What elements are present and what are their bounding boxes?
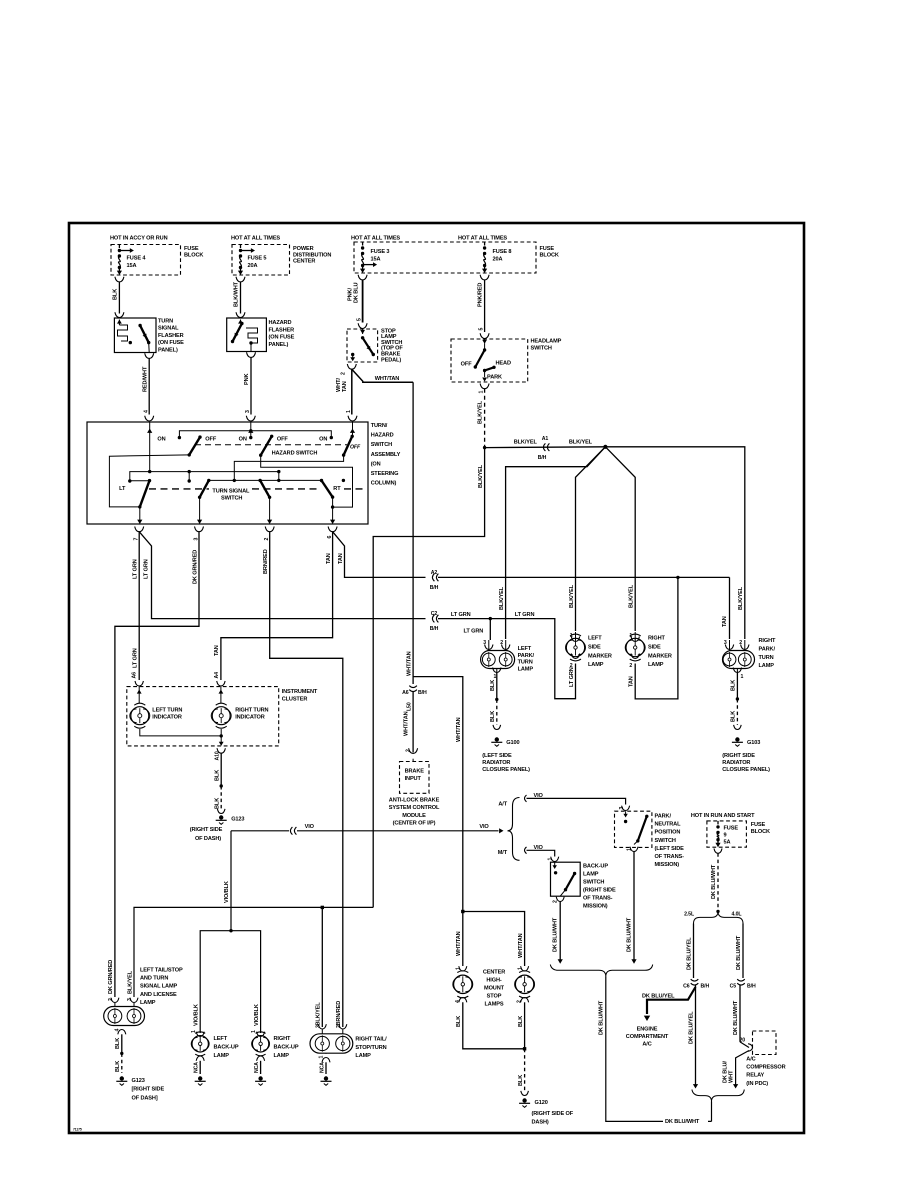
wire DK BLU/WHT C5 to A/C compressor relay pin 20 (733, 985, 753, 1051)
svg-text:C5: C5 (730, 983, 737, 989)
wire BRN/RED pin2 to right tail lamp (263, 532, 343, 1027)
svg-text:STOP/TURN: STOP/TURN (355, 1045, 386, 1051)
svg-text:LT GRN: LT GRN (133, 648, 139, 668)
svg-text:(ON: (ON (371, 461, 381, 467)
svg-text:BLK: BLK (215, 770, 221, 781)
svg-text:INDICATOR: INDICATOR (235, 715, 265, 721)
svg-text:OFF: OFF (205, 436, 217, 442)
wire BLK right park/turn to ground G103 (731, 673, 742, 730)
svg-text:PEDAL): PEDAL) (381, 357, 401, 363)
svg-text:POSITION: POSITION (655, 830, 681, 836)
svg-text:2: 2 (739, 640, 742, 646)
svg-text:B/H: B/H (701, 983, 710, 989)
svg-text:2: 2 (406, 749, 412, 752)
svg-text:1: 1 (627, 848, 633, 851)
wire BLK/YEL headlamp PARK output (dashed) (478, 384, 490, 448)
svg-text:BLK/YEL: BLK/YEL (569, 440, 593, 446)
fuse block F4 (HOT IN ACCY OR RUN) (110, 236, 203, 282)
svg-text:3: 3 (315, 1025, 321, 1028)
wire LT GRN pin7 straight to instrument cluster A6 (132, 532, 140, 680)
svg-text:A10: A10 (215, 751, 221, 760)
svg-text:RIGHT: RIGHT (274, 1036, 292, 1042)
wire VIO M/T branch to back-up lamp switch (525, 845, 555, 857)
svg-text:4.0L: 4.0L (732, 912, 743, 918)
svg-text:(CENTER OF I/P): (CENTER OF I/P) (393, 821, 436, 827)
svg-text:BRAKE: BRAKE (405, 769, 425, 775)
svg-text:HOT AT ALL TIMES: HOT AT ALL TIMES (231, 236, 280, 242)
svg-text:DK GRN/RED: DK GRN/RED (108, 960, 114, 994)
svg-text:RED/WHT: RED/WHT (143, 366, 149, 392)
connector C2 B/H on LT GRN bus (430, 611, 471, 632)
svg-text:LT GRN: LT GRN (451, 612, 471, 618)
svg-text:3: 3 (483, 640, 486, 646)
LT GRN bus branch to left side marker pin 2 (490, 619, 575, 699)
wire DK BLU/WHT park/neutral output (626, 847, 638, 964)
svg-text:LAMP: LAMP (518, 666, 534, 672)
svg-text:HAZARD: HAZARD (269, 320, 292, 326)
svg-text:BLK/YEL: BLK/YEL (478, 400, 484, 424)
svg-text:NCA: NCA (194, 1062, 200, 1073)
svg-text:20A: 20A (248, 263, 258, 269)
headlamp switch (451, 339, 562, 383)
svg-text:(IN PDC): (IN PDC) (746, 1081, 768, 1087)
svg-text:LEFT: LEFT (588, 636, 602, 642)
svg-text:LEFT: LEFT (518, 646, 532, 652)
collector brace (engine A/C section) (692, 1090, 744, 1105)
svg-text:BLK: BLK (490, 680, 496, 691)
cluster internal ground bus (140, 729, 224, 746)
svg-text:A1: A1 (542, 436, 549, 442)
svg-text:4: 4 (144, 410, 150, 413)
svg-text:SYSTEM CONTROL: SYSTEM CONTROL (389, 805, 440, 811)
svg-text:DK BLU/WHT: DK BLU/WHT (665, 1119, 700, 1125)
left turn indicator (130, 681, 183, 728)
left back-up lamp (191, 1032, 239, 1059)
svg-text:1: 1 (319, 1056, 325, 1059)
svg-text:NCA: NCA (254, 1062, 260, 1073)
svg-text:INDICATOR: INDICATOR (152, 715, 182, 721)
svg-text:A2: A2 (431, 570, 438, 576)
svg-text:BLK: BLK (731, 680, 737, 691)
hazard flasher (227, 318, 295, 352)
svg-text:2: 2 (629, 663, 632, 669)
svg-text:SWITCH: SWITCH (371, 442, 392, 448)
svg-text:3: 3 (245, 410, 251, 413)
svg-text:SWITCH: SWITCH (221, 496, 242, 502)
svg-text:HOT IN ACCY OR RUN: HOT IN ACCY OR RUN (110, 236, 168, 242)
svg-text:FUSE 4: FUSE 4 (127, 256, 147, 262)
svg-text:COLUMN): COLUMN) (371, 481, 397, 487)
svg-text:ANTI-LOCK BRAKE: ANTI-LOCK BRAKE (389, 798, 440, 804)
svg-text:FUSE: FUSE (724, 826, 739, 832)
svg-text:BLK/YEL: BLK/YEL (478, 464, 484, 488)
wire VIO/BLK down to back-up lamps (191, 831, 261, 1033)
svg-text:2: 2 (553, 900, 559, 903)
svg-text:2: 2 (341, 372, 347, 375)
wire DK BLU/YEL 2.5L branch to C6 (686, 924, 693, 979)
svg-text:VIO/BLK: VIO/BLK (254, 1004, 260, 1026)
right park/turn lamp (723, 638, 777, 680)
svg-text:B/H: B/H (418, 690, 427, 696)
wire TAN pin6 branch to A2 bus (333, 532, 426, 578)
fuse block F9 (HOT IN RUN AND START) (691, 813, 770, 853)
svg-text:FUSE: FUSE (540, 246, 555, 252)
svg-text:DK BLU/WHT: DK BLU/WHT (733, 1000, 739, 1035)
svg-text:2: 2 (108, 998, 114, 1001)
svg-text:WHT: WHT (729, 1070, 735, 1083)
wire BLK/WHT fuse5 to hazard flasher (234, 281, 246, 317)
svg-text:PANEL): PANEL) (269, 342, 289, 348)
svg-text:DK BLU/WHT: DK BLU/WHT (599, 1000, 605, 1035)
LT GRN bus to left park/turn lamp pin 3 (438, 612, 534, 640)
svg-text:HOT IN RUN AND START: HOT IN RUN AND START (691, 813, 755, 819)
svg-text:HOT AT ALL TIMES: HOT AT ALL TIMES (351, 236, 400, 242)
svg-text:HEADLAMP: HEADLAMP (531, 339, 562, 345)
svg-text:DK BLU/WHT: DK BLU/WHT (553, 917, 559, 952)
svg-text:SWITCH: SWITCH (531, 346, 552, 352)
svg-text:COMPRESSOR: COMPRESSOR (746, 1065, 785, 1071)
svg-text:A/C: A/C (642, 1042, 651, 1048)
svg-text:LAMPS: LAMPS (485, 1002, 504, 1008)
wire DK BLU/WHT relay output down (723, 1051, 750, 1089)
svg-text:BACK-UP: BACK-UP (583, 864, 608, 870)
svg-text:ON: ON (319, 436, 327, 442)
svg-text:OF DASH]: OF DASH] (132, 1095, 158, 1101)
wire DK GRN/RED pin3 to left tail lamp (108, 532, 199, 997)
right tail lamp ground (319, 1056, 332, 1086)
svg-text:COMPARTMENT: COMPARTMENT (626, 1034, 669, 1040)
connector C5 B/H (730, 979, 756, 989)
right turn indicator (211, 681, 268, 728)
svg-text:TAN: TAN (629, 676, 635, 687)
svg-text:LT GRN: LT GRN (515, 612, 535, 618)
svg-text:PARK/: PARK/ (518, 653, 535, 659)
svg-text:MARKER: MARKER (588, 653, 612, 659)
svg-text:BLK: BLK (113, 289, 119, 300)
svg-text:(ON FUSE: (ON FUSE (158, 340, 184, 346)
svg-text:LT: LT (119, 486, 126, 492)
svg-text:SIGNAL: SIGNAL (158, 326, 179, 332)
svg-text:VIO/BLK: VIO/BLK (224, 881, 230, 903)
svg-text:BLK/WHT: BLK/WHT (234, 281, 240, 307)
svg-text:DK BLU: DK BLU (354, 283, 360, 303)
svg-text:BRN/RED: BRN/RED (336, 1001, 342, 1026)
wire TAN pin6 to instrument cluster A4 (214, 532, 332, 680)
svg-text:RIGHT TURN: RIGHT TURN (235, 708, 268, 714)
svg-text:2: 2 (336, 1025, 342, 1028)
svg-text:BLK: BLK (115, 1038, 121, 1049)
svg-text:WHT/TAN: WHT/TAN (518, 933, 524, 958)
svg-text:3: 3 (724, 640, 727, 646)
svg-text:LAMP: LAMP (588, 662, 604, 668)
svg-text:1: 1 (494, 674, 497, 680)
svg-text:VIO/BLK: VIO/BLK (194, 1004, 200, 1026)
svg-text:BLK/YEL: BLK/YEL (629, 584, 635, 608)
svg-text:RIGHT: RIGHT (759, 638, 777, 644)
svg-text:BLK: BLK (215, 798, 221, 809)
svg-text:[RIGHT SIDE: [RIGHT SIDE (132, 1087, 165, 1093)
back-up lamp switch (548, 857, 616, 910)
svg-text:(RIGHT SIDE: (RIGHT SIDE (190, 827, 223, 833)
svg-text:BLK/YEL: BLK/YEL (738, 586, 744, 610)
svg-text:LT GRN: LT GRN (143, 559, 149, 579)
wire WHT/TAN branch to right (to A6 splice) (352, 369, 413, 382)
svg-text:ENGINE: ENGINE (637, 1027, 658, 1033)
svg-text:DK BLU/WHT: DK BLU/WHT (736, 935, 742, 970)
svg-text:WHT/TAN: WHT/TAN (404, 711, 410, 736)
svg-text:PARK: PARK (487, 375, 502, 381)
svg-text:WHT/TAN: WHT/TAN (456, 931, 462, 956)
wire VIO horizontal run (231, 824, 504, 835)
svg-text:ON: ON (239, 436, 247, 442)
svg-text:FUSE: FUSE (184, 246, 199, 252)
CHMSL ground chain BLK to G120 (455, 998, 574, 1126)
stop lamp switch (347, 328, 403, 363)
svg-text:BACK-UP: BACK-UP (274, 1045, 299, 1051)
svg-text:9: 9 (724, 833, 727, 839)
svg-text:B/H: B/H (538, 455, 547, 461)
wire DK BLU/WHT back-up switch output (553, 897, 565, 964)
svg-text:LAMP: LAMP (583, 872, 599, 878)
left side marker lamp (566, 632, 612, 669)
svg-text:HIGH-: HIGH- (486, 978, 502, 984)
svg-text:G123: G123 (231, 817, 244, 823)
svg-text:BLK/YEL: BLK/YEL (499, 586, 505, 610)
svg-text:LEFT TAIL/STOP: LEFT TAIL/STOP (140, 968, 183, 974)
svg-text:CENTER: CENTER (483, 970, 505, 976)
svg-text:STEERING: STEERING (371, 471, 399, 477)
instrument cluster box (127, 687, 318, 746)
svg-text:BLK/YEL: BLK/YEL (127, 970, 133, 994)
park/neutral position switch (615, 806, 685, 868)
svg-text:1: 1 (517, 967, 523, 970)
svg-text:15A: 15A (371, 257, 381, 263)
svg-text:FUSE: FUSE (751, 822, 766, 828)
svg-text:RADIATOR: RADIATOR (482, 760, 510, 766)
center high-mount stop lamps (453, 966, 535, 1007)
svg-text:BLOCK: BLOCK (184, 252, 203, 258)
svg-text:LEFT: LEFT (214, 1036, 228, 1042)
svg-text:BLK/YEL: BLK/YEL (514, 440, 538, 446)
svg-text:CLOSURE PANEL): CLOSURE PANEL) (722, 767, 770, 773)
svg-text:HAZARD SWITCH: HAZARD SWITCH (272, 451, 318, 457)
2.5L / 4.0L engine split brace (684, 911, 743, 923)
svg-text:WHT/TAN: WHT/TAN (375, 376, 400, 382)
svg-text:LAMP: LAMP (648, 662, 664, 668)
svg-text:M/T: M/T (498, 850, 508, 856)
right back-up lamp ground (254, 1056, 266, 1085)
svg-text:DASH): DASH) (532, 1120, 549, 1126)
svg-text:ON: ON (157, 436, 165, 442)
svg-text:LAMP: LAMP (355, 1053, 371, 1059)
svg-text:1: 1 (548, 858, 554, 861)
turn/hazard switch assembly box (87, 422, 401, 524)
svg-text:DK BLU/WHT: DK BLU/WHT (626, 917, 632, 952)
svg-text:PNK: PNK (244, 373, 250, 385)
svg-text:PNK/RED: PNK/RED (478, 283, 484, 307)
svg-text:A6: A6 (132, 672, 138, 679)
svg-text:FLASHER: FLASHER (269, 327, 295, 333)
svg-text:OFF: OFF (461, 362, 473, 368)
svg-text:OFF: OFF (350, 445, 361, 451)
svg-text:WHT/TAN: WHT/TAN (406, 651, 412, 676)
svg-text:TURN: TURN (158, 319, 173, 325)
svg-text:TAN: TAN (214, 645, 220, 656)
svg-text:AND TURN: AND TURN (140, 976, 168, 982)
svg-text:FUSE 5: FUSE 5 (248, 256, 267, 262)
wire BLK/YEL to left park/turn lamp pin 2 (499, 447, 606, 639)
connector pin 7 output (LT GRN) (134, 527, 144, 541)
svg-text:4: 4 (455, 1000, 461, 1003)
svg-text:POWER: POWER (293, 246, 314, 252)
svg-text:G100: G100 (506, 740, 519, 746)
wire WHT/TAN branch to center high-mount stop lamps (413, 677, 463, 956)
svg-text:G120: G120 (535, 1100, 548, 1106)
A/T M/T split brace (498, 798, 520, 861)
svg-text:DK BLU/YEL: DK BLU/YEL (642, 993, 675, 999)
svg-text:(LEFT SIDE: (LEFT SIDE (482, 753, 512, 759)
wire WHT/TAN vertical to splice A6 (406, 382, 413, 684)
switch assembly output stubs (137, 497, 335, 524)
svg-text:RIGHT: RIGHT (648, 636, 666, 642)
svg-text:LT GRN: LT GRN (464, 629, 484, 635)
svg-text:SWITCH: SWITCH (655, 838, 676, 844)
svg-text:MISSION): MISSION) (583, 904, 608, 910)
svg-text:TAN: TAN (342, 381, 348, 392)
hazard switch row (150, 429, 361, 472)
bold branch to engine compartment A/C (626, 987, 696, 1048)
svg-text:MODULE: MODULE (402, 813, 426, 819)
svg-text:BLOCK: BLOCK (540, 252, 559, 258)
svg-text:INSTRUMENT: INSTRUMENT (282, 689, 318, 695)
svg-text:DK BLU/WHT: DK BLU/WHT (711, 864, 717, 899)
svg-text:BLK/YEL: BLK/YEL (316, 1002, 322, 1026)
svg-text:SIGNAL LAMP: SIGNAL LAMP (140, 984, 178, 990)
svg-text:5: 5 (357, 318, 363, 321)
svg-text:A6: A6 (402, 690, 409, 696)
svg-text:(RIGHT SIDE OF: (RIGHT SIDE OF (532, 1111, 574, 1117)
connector pin 6 output (TAN) (327, 527, 337, 539)
wire BLK/YEL down-left to tail lamps (373, 448, 484, 908)
svg-text:MISSION): MISSION) (655, 862, 680, 868)
svg-text:BLK: BLK (490, 711, 496, 722)
svg-text:1: 1 (479, 391, 485, 394)
svg-text:DK GRN/RED: DK GRN/RED (192, 550, 198, 584)
svg-text:B/H: B/H (747, 983, 756, 989)
svg-text:LAMP: LAMP (140, 1000, 156, 1006)
svg-text:RT: RT (333, 486, 341, 492)
svg-text:RIGHT TAIL/: RIGHT TAIL/ (355, 1037, 387, 1043)
svg-text:TURN: TURN (518, 660, 533, 666)
wire WHT/TAN L50 to brake input (404, 692, 418, 754)
svg-text:BLK: BLK (731, 711, 737, 722)
TAN bus to right park/turn lamp pin 3 (438, 577, 730, 639)
svg-text:OFF: OFF (277, 436, 289, 442)
fuse block F5 (HOT AT ALL TIMES / PDC) (231, 236, 331, 282)
svg-text:BLK: BLK (456, 1016, 462, 1027)
svg-text:INPUT: INPUT (405, 776, 422, 782)
svg-text:2: 2 (500, 640, 503, 646)
svg-text:HOT AT ALL TIMES: HOT AT ALL TIMES (458, 236, 507, 242)
svg-text:OF TRANS-: OF TRANS- (655, 854, 685, 860)
svg-text:1: 1 (346, 410, 352, 413)
svg-text:(LEFT SIDE: (LEFT SIDE (655, 846, 685, 852)
wire DK BLU/WHT collector to bottom bus (599, 977, 712, 1126)
wire PNK/DK BLU fuse3 to stop lamp switch (348, 280, 368, 329)
svg-text:G123: G123 (132, 1078, 145, 1084)
svg-text:LAMP: LAMP (274, 1053, 290, 1059)
wire DK BLU/YEL C6 down to collector (688, 985, 698, 1089)
svg-text:NCA: NCA (319, 1062, 325, 1073)
svg-text:BLK: BLK (518, 1075, 524, 1086)
svg-text:LAMP: LAMP (214, 1053, 230, 1059)
svg-text:BACK-UP: BACK-UP (214, 1045, 239, 1051)
splice A1 and BLK/YEL distribution (483, 436, 608, 461)
svg-text:4: 4 (114, 1029, 120, 1032)
turn signal flasher (114, 318, 184, 353)
svg-text:TURN SIGNAL: TURN SIGNAL (212, 489, 250, 495)
svg-text:OF DASH): OF DASH) (195, 836, 221, 842)
svg-text:DISTRIBUTION: DISTRIBUTION (293, 252, 331, 258)
svg-text:TURN/: TURN/ (371, 423, 388, 429)
svg-text:SIDE: SIDE (588, 644, 601, 650)
svg-text:WHT/TAN: WHT/TAN (456, 717, 462, 742)
svg-text:BLK: BLK (115, 1061, 121, 1072)
wire BLK left tail to ground G123 (114, 1029, 164, 1102)
svg-text:2: 2 (570, 663, 573, 669)
svg-text:3: 3 (619, 807, 625, 810)
right back-up lamp (252, 1032, 299, 1059)
svg-text:5: 5 (479, 328, 485, 331)
wire BLK/YEL to right side marker pin 1 (605, 447, 635, 631)
svg-text:5A: 5A (724, 840, 731, 846)
svg-text:2: 2 (517, 1000, 523, 1003)
svg-text:(RIGHT SIDE: (RIGHT SIDE (583, 888, 616, 894)
hazard pivot interconnects (109, 455, 352, 507)
connector pin 3 output (DK GRN/RED) (193, 527, 203, 541)
svg-text:15A: 15A (127, 263, 137, 269)
A/C compressor relay (746, 1031, 785, 1087)
ground G100 (482, 737, 530, 773)
svg-text:VIO: VIO (479, 824, 489, 830)
svg-text:LT GRN: LT GRN (569, 667, 575, 687)
svg-text:A/C: A/C (746, 1057, 755, 1063)
wire PNK/RED fuse8 to headlamp switch (478, 280, 490, 339)
svg-text:LEFT TURN: LEFT TURN (152, 708, 182, 714)
left park/turn lamp (481, 640, 535, 680)
svg-text:FUSE 8: FUSE 8 (493, 249, 512, 255)
svg-text:1: 1 (741, 674, 744, 680)
svg-text:SWITCH: SWITCH (583, 880, 604, 886)
svg-text:CLOSURE PANEL): CLOSURE PANEL) (482, 767, 530, 773)
connector C6 B/H (683, 979, 709, 989)
svg-text:71175: 71175 (73, 1128, 82, 1132)
svg-text:B/H: B/H (430, 585, 439, 591)
svg-text:HAZARD: HAZARD (371, 433, 394, 439)
WHT/TAN split to both CHMSL lamps (461, 910, 524, 966)
svg-text:C2: C2 (431, 611, 438, 617)
BLK/YEL bottom run to tail lamps (127, 906, 373, 1027)
connector A2 B/H on TAN bus (430, 570, 439, 591)
svg-text:LAMP: LAMP (759, 663, 775, 669)
svg-text:AND LICENSE: AND LICENSE (140, 992, 177, 998)
turn signal switch row (119, 470, 366, 509)
svg-text:A/T: A/T (498, 801, 507, 807)
svg-text:MARKER: MARKER (648, 653, 672, 659)
svg-text:2.5L: 2.5L (684, 912, 695, 918)
svg-text:B/H: B/H (430, 626, 439, 632)
wire BLK/YEL to left side marker pin 1 (569, 447, 606, 631)
